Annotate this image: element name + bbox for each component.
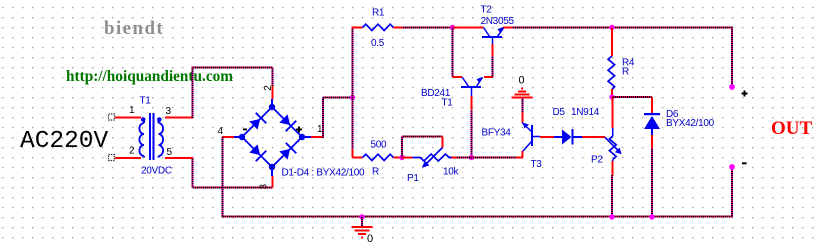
wire plus right to main riser xyxy=(323,97,353,99)
resistor 500 body xyxy=(363,154,394,160)
arrow T3 emitter xyxy=(523,123,530,129)
svg-text:R1: R1 xyxy=(372,8,385,19)
wire down to bridge pin2 xyxy=(272,68,274,88)
svg-text:R: R xyxy=(622,67,629,78)
wire junction down to T1 collector xyxy=(452,28,454,78)
diode D3 bottom-left xyxy=(248,143,267,162)
wire junction to T2 collector xyxy=(453,27,484,29)
resistor R4 lead top xyxy=(611,28,613,57)
wire top run to bridge xyxy=(192,67,273,69)
wire ground stem xyxy=(522,98,524,112)
svg-text:D5: D5 xyxy=(553,107,566,118)
wire P1 loop left up xyxy=(401,137,403,158)
wire AC bottom to T1 pin2 xyxy=(115,157,141,159)
wire P1 loop right down xyxy=(442,137,444,148)
resistor 500 lead right xyxy=(393,157,402,159)
junction R4 bottom xyxy=(609,94,614,99)
node bridge left xyxy=(239,134,245,140)
svg-text:0: 0 xyxy=(519,75,525,87)
svg-text:10k: 10k xyxy=(443,167,460,178)
diode D2 top-right xyxy=(278,113,297,132)
wire top rail R1 to junction xyxy=(402,27,453,29)
svg-text:R: R xyxy=(372,167,379,178)
minus mark output xyxy=(742,162,747,164)
junction P2 rail xyxy=(609,214,614,219)
svg-text:T2: T2 xyxy=(481,5,493,16)
bridge pin2 lead xyxy=(272,86,274,99)
svg-text:T1: T1 xyxy=(442,98,454,109)
svg-text:3: 3 xyxy=(259,183,270,189)
wire T1 pin3 to riser xyxy=(165,117,194,119)
wire D6 down to rail xyxy=(651,148,653,217)
resistor 500 lead left xyxy=(353,157,363,159)
wire T3 base red xyxy=(540,136,554,138)
potentiometer P2 lead top xyxy=(612,97,614,129)
bridge rectifier D1-D4 body xyxy=(234,99,311,176)
potentiometer P2 wiper arrow xyxy=(605,137,622,154)
svg-text:1N914: 1N914 xyxy=(571,107,600,118)
svg-text:0.5: 0.5 xyxy=(371,38,385,49)
diode D6 lead bottom red xyxy=(651,135,653,149)
wire T1 pin5 right xyxy=(165,157,194,159)
wire T2 base red xyxy=(492,44,494,57)
ground top 0 xyxy=(512,89,533,98)
transistor T2 2N3055 xyxy=(482,28,504,45)
junction 500 P1 xyxy=(399,155,404,160)
wire P1 right stub xyxy=(449,157,452,159)
svg-text:0: 0 xyxy=(367,233,373,245)
wire bridge minus stub xyxy=(222,136,234,138)
diode D1 top-left xyxy=(248,112,267,131)
svg-text:2: 2 xyxy=(129,146,135,157)
bridge pin3 lead xyxy=(272,176,274,188)
wire ground stem red xyxy=(522,112,524,123)
svg-text:http://hoiquandientu.com: http://hoiquandientu.com xyxy=(66,68,233,85)
transformer T1 xyxy=(139,113,163,160)
diode D6 cathode bar xyxy=(644,113,660,115)
junction D6 rail xyxy=(649,214,654,219)
AC terminal square top xyxy=(109,114,115,120)
wire plus up xyxy=(322,98,324,139)
wire P2 down to rail xyxy=(611,175,613,217)
potentiometer P1 body xyxy=(413,154,452,161)
wire T1 base red xyxy=(471,96,473,111)
junction T1 base row xyxy=(469,155,474,160)
wire P1 to T1 base red xyxy=(452,157,458,159)
junction top rail T1 collector xyxy=(450,25,455,30)
svg-text:T1: T1 xyxy=(140,96,152,107)
wire riser to 500 lead xyxy=(352,149,354,158)
svg-text:5: 5 xyxy=(167,147,173,158)
svg-text:20VDC: 20VDC xyxy=(141,166,172,177)
svg-text:AC220V: AC220V xyxy=(20,128,109,155)
potentiometer P2 stub bottom xyxy=(612,159,614,161)
wire P1 loop top xyxy=(402,136,443,138)
svg-text:BYX42/100: BYX42/100 xyxy=(666,118,715,129)
AC terminal square bottom xyxy=(109,155,115,161)
wire R4 top junction xyxy=(609,25,614,30)
wire T2 base down xyxy=(492,56,494,78)
wire rail up to minus terminal xyxy=(731,167,733,217)
diode D6 body xyxy=(644,116,660,129)
svg-text:3: 3 xyxy=(166,106,172,117)
ground bottom 0 xyxy=(352,227,373,238)
diode D6 lead bottom blue xyxy=(651,129,653,135)
wire D5 to P2 wiper xyxy=(582,136,605,138)
diode D5 body xyxy=(562,130,572,145)
wire ground bottom stem xyxy=(361,217,363,226)
transformer T1 polarity dot right xyxy=(157,117,162,122)
node bridge right xyxy=(299,134,305,140)
junction minus terminal xyxy=(729,164,735,170)
svg-text:P1: P1 xyxy=(407,173,419,184)
diode D6 lead top xyxy=(651,97,653,114)
wire top rail to plus corner xyxy=(512,27,733,29)
wire T1 collector stub xyxy=(453,76,463,78)
wire bottom rail xyxy=(222,216,733,218)
transistor T3 BFY34 xyxy=(522,123,540,152)
transistor T1 BD241 xyxy=(461,77,483,96)
svg-text:BFY34: BFY34 xyxy=(482,128,512,139)
junction main riser xyxy=(350,95,355,100)
svg-text:T3: T3 xyxy=(531,159,543,170)
diode D5 lead left xyxy=(554,136,562,138)
minus mark bridge xyxy=(243,129,247,131)
svg-text:1: 1 xyxy=(129,105,135,116)
resistor R1 lead right xyxy=(393,27,402,29)
wire T1 emitter to T2 base xyxy=(484,76,493,78)
wire AC top to T1 pin1 xyxy=(115,117,141,119)
plus mark output xyxy=(742,91,748,97)
wire T2 emitter stub right xyxy=(503,27,512,29)
svg-text:D1-D4 : BYX42/100: D1-D4 : BYX42/100 xyxy=(282,168,365,179)
wire bottom run to bridge pin3 xyxy=(193,187,273,189)
wire down to plus terminal xyxy=(731,28,733,88)
diode D4 bottom-right xyxy=(278,142,297,161)
node bridge top xyxy=(269,104,275,110)
wire P2 bottom red xyxy=(612,161,614,176)
resistor R4 lead bottom xyxy=(611,89,613,97)
wire T1 base down xyxy=(471,110,473,158)
resistor R4 body xyxy=(608,56,615,90)
resistor R1 body xyxy=(363,24,394,30)
potentiometer P1 wiper arrow xyxy=(422,148,443,168)
svg-text:P2: P2 xyxy=(591,155,603,166)
diode D5 lead right xyxy=(573,136,582,138)
arrow T2 emitter xyxy=(498,27,504,33)
wire T3 collector down xyxy=(522,151,524,158)
svg-text:500: 500 xyxy=(371,140,388,151)
wire jog R4 to D6 xyxy=(612,96,652,98)
node bridge bottom xyxy=(269,164,275,170)
wire row to T3 collector xyxy=(457,157,517,159)
wire riser pin3 up xyxy=(192,67,194,118)
wire bridge plus stub xyxy=(311,136,323,138)
svg-text:2N3055: 2N3055 xyxy=(481,16,515,27)
resistor R1 lead left xyxy=(352,27,363,29)
transformer T1 polarity dot left xyxy=(141,117,146,122)
svg-text:OUT: OUT xyxy=(771,118,813,139)
plus mark bridge xyxy=(296,127,302,133)
arrow T1 emitter xyxy=(477,77,483,83)
junction ground bottom xyxy=(359,214,364,219)
junction plus terminal xyxy=(729,84,735,90)
svg-text:4: 4 xyxy=(218,126,224,137)
wire P1 lead left xyxy=(402,157,413,159)
wire pin5 down xyxy=(192,158,194,188)
svg-text:2: 2 xyxy=(263,85,274,91)
wire bridge minus down xyxy=(222,137,224,217)
svg-text:biendt: biendt xyxy=(104,18,164,39)
potentiometer P2 stub top blue xyxy=(612,128,614,136)
potentiometer P2 body xyxy=(609,136,616,159)
wire main riser xyxy=(352,28,354,151)
wire T3 collector stub xyxy=(516,157,523,159)
diode D5 cathode bar xyxy=(572,129,574,145)
